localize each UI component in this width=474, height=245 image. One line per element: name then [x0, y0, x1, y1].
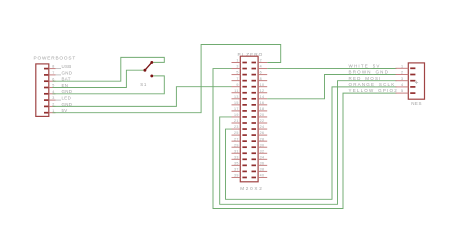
svg-text:7: 7: [236, 77, 238, 81]
svg-text:1: 1: [52, 109, 54, 113]
svg-text:S1: S1: [140, 82, 147, 87]
PI pin 15 (left): [232, 104, 241, 106]
PI pin 10 (right): [258, 86, 267, 88]
PI pin 21 (left): [232, 122, 241, 124]
PI pin 14 (right): [258, 98, 267, 100]
PI pin 30 (right): [258, 146, 267, 148]
PI pin 32 (right): [258, 152, 267, 154]
svg-text:13: 13: [234, 95, 239, 99]
PI pin 29 (left): [232, 146, 241, 148]
svg-text:22: 22: [260, 119, 265, 123]
wire net MOSI: PI pin19 to NES pin3: [220, 81, 397, 205]
svg-text:2: 2: [52, 103, 54, 107]
S1 upper throw contact: [150, 61, 153, 64]
POWERBOOST pin stubs: [49, 68, 56, 70]
svg-text:USB: USB: [62, 64, 72, 69]
svg-text:6: 6: [52, 77, 54, 81]
PI pin 38 (right): [258, 170, 267, 172]
POWERBOOST body: [36, 64, 49, 117]
svg-text:3: 3: [401, 77, 403, 81]
svg-text:5: 5: [236, 71, 238, 75]
svg-text:32: 32: [260, 149, 265, 153]
svg-text:25: 25: [234, 131, 239, 135]
PI pin 35 (left): [232, 164, 241, 166]
PI pin 31 (left): [232, 152, 241, 154]
PI pin 18 (right): [258, 110, 267, 112]
PI pin 1 (left): [232, 62, 241, 64]
svg-text:20: 20: [260, 113, 265, 117]
svg-text:36: 36: [260, 161, 265, 165]
svg-text:YELLOW_GPIO2: YELLOW_GPIO2: [349, 88, 398, 93]
wire net GND: powerboost GND to S1 lower throw: [53, 76, 165, 94]
PI pin 39 (left): [232, 176, 241, 178]
svg-text:16: 16: [260, 101, 265, 105]
svg-text:3: 3: [52, 96, 54, 100]
svg-text:40: 40: [260, 174, 265, 178]
svg-text:29: 29: [234, 143, 239, 147]
svg-text:10: 10: [260, 83, 265, 87]
PI pin 34 (right): [258, 158, 267, 160]
PI pin 37 (left): [232, 170, 241, 172]
PI pin 36 (right): [258, 164, 267, 166]
PI pin 9 (left): [232, 86, 241, 88]
PI pin 23 (left): [232, 128, 241, 130]
PI pin 26 (right): [258, 134, 267, 136]
svg-text:RED_MOSI: RED_MOSI: [349, 76, 382, 81]
PI ZERO body: [240, 56, 258, 182]
svg-text:26: 26: [260, 131, 265, 135]
svg-text:30: 30: [260, 143, 265, 147]
PI pin 20 (right): [258, 116, 267, 118]
switch S1: [140, 61, 153, 87]
wire net BAT: powerboost BAT to S1 upper throw: [53, 57, 165, 81]
PI pin 40 (right): [258, 176, 267, 178]
svg-text:BROWN_GND: BROWN_GND: [349, 70, 390, 75]
wire net SCLK: PI pin23 to NES pin4: [226, 87, 397, 199]
PI pin 27 (left): [232, 140, 241, 142]
svg-text:POWERBOOST: POWERBOOST: [34, 55, 77, 60]
PI pin 24 (right): [258, 128, 267, 130]
svg-text:19: 19: [234, 113, 239, 117]
S1 lower throw contact: [150, 74, 153, 77]
PI pin 7 (left): [232, 80, 241, 82]
NES pin 3: [396, 80, 409, 82]
connector SV1 POWERBOOST: [34, 55, 77, 116]
wire net GPIO2: PI pin3 to NES pin5: [213, 69, 397, 209]
wire net 5V: powerboost 5V via top rail to PI pin2: [53, 45, 281, 113]
connector U1 PI ZERO 2x20 header: [232, 52, 268, 191]
svg-text:2: 2: [401, 71, 403, 75]
PI pin 13 (left): [232, 98, 241, 100]
svg-text:8: 8: [52, 65, 54, 69]
NES body: [408, 63, 424, 99]
POWERBOOST pin dashes: [44, 68, 48, 70]
svg-text:24: 24: [260, 125, 265, 129]
svg-text:11: 11: [234, 89, 239, 93]
svg-text:WHITE_5V: WHITE_5V: [349, 63, 381, 68]
svg-text:LED: LED: [62, 96, 72, 101]
svg-text:5: 5: [52, 84, 54, 88]
svg-text:28: 28: [260, 137, 265, 141]
svg-text:5: 5: [401, 89, 403, 93]
svg-text:9: 9: [236, 83, 238, 87]
svg-text:33: 33: [234, 155, 239, 159]
PI pin 5 (left): [232, 74, 241, 76]
wire net EN: powerboost EN to S1 common: [53, 70, 144, 87]
svg-text:31: 31: [234, 149, 239, 153]
PI pin 11 (left): [232, 92, 241, 94]
svg-text:21: 21: [234, 119, 239, 123]
wire net GND: PI pin14 to NES pin2: [267, 75, 396, 99]
svg-text:ORANGE_SCLK: ORANGE_SCLK: [349, 82, 396, 87]
svg-text:NES: NES: [411, 101, 422, 106]
PI pin 19 (left): [232, 116, 241, 118]
svg-text:7: 7: [52, 71, 54, 75]
PI pin 8 (right): [258, 80, 267, 82]
svg-text:2: 2: [260, 59, 262, 63]
svg-text:34: 34: [260, 155, 265, 159]
svg-text:6: 6: [260, 71, 262, 75]
PI pin 4 (right): [258, 68, 267, 70]
PI pin 17 (left): [232, 110, 241, 112]
PI pin 33 (left): [232, 158, 241, 160]
NES pin 4: [396, 86, 409, 88]
svg-text:4: 4: [401, 83, 403, 87]
svg-text:18: 18: [260, 107, 265, 111]
svg-text:14: 14: [260, 95, 265, 99]
PI pin 6 (right): [258, 74, 267, 76]
NES pin 5: [396, 92, 409, 94]
svg-text:39: 39: [234, 174, 239, 178]
wire net 5V: PI pin4 to NES pin1: [267, 68, 396, 70]
PI pin 2 (right): [258, 62, 267, 64]
NES pin 1: [396, 67, 409, 69]
S1 common contact: [143, 69, 146, 72]
svg-text:12: 12: [260, 89, 265, 93]
PI pin 3 (left): [232, 68, 241, 70]
svg-text:GND: GND: [62, 70, 73, 75]
svg-text:8: 8: [260, 77, 262, 81]
svg-text:1: 1: [236, 59, 238, 63]
svg-text:4: 4: [260, 65, 262, 69]
svg-text:M20X2: M20X2: [240, 186, 263, 191]
svg-text:4: 4: [52, 90, 54, 94]
S1 pole lever: [145, 62, 153, 71]
svg-text:35: 35: [234, 161, 239, 165]
NES origin cross: [415, 81, 418, 84]
svg-text:3: 3: [236, 65, 238, 69]
wire net GND: powerboost GND pin2 to PI pin9: [53, 87, 232, 107]
svg-text:37: 37: [234, 168, 239, 172]
PI pin 22 (right): [258, 122, 267, 124]
PI pin 28 (right): [258, 140, 267, 142]
PI pin 25 (left): [232, 134, 241, 136]
svg-text:23: 23: [234, 125, 239, 129]
NES pin 2: [396, 74, 409, 76]
svg-text:1: 1: [401, 64, 403, 68]
connector X1 NES: [396, 63, 425, 106]
svg-text:38: 38: [260, 168, 265, 172]
PI pin 16 (right): [258, 104, 267, 106]
svg-text:15: 15: [234, 101, 239, 105]
svg-text:17: 17: [234, 107, 239, 111]
svg-text:27: 27: [234, 137, 239, 141]
PI pin 12 (right): [258, 92, 267, 94]
POWERBOOST unconnected pin gray lines: [56, 68, 62, 70]
